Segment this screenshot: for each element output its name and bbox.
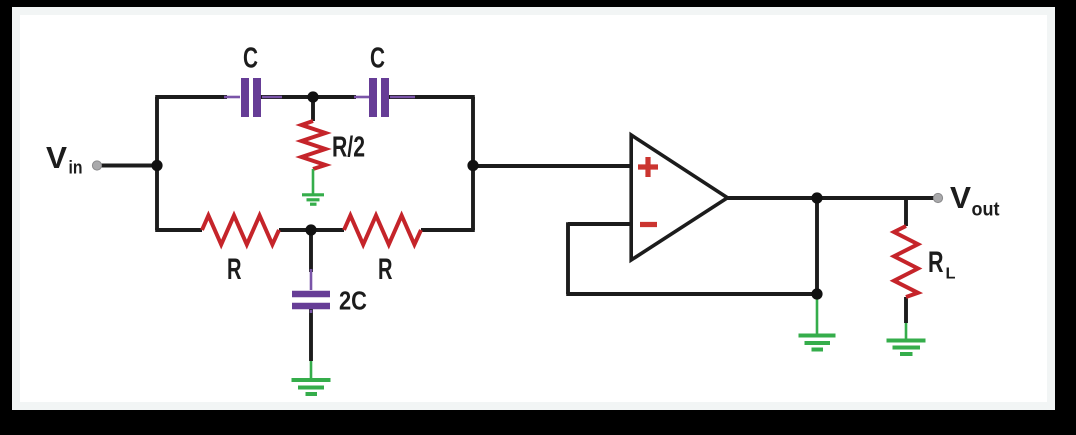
svg-text:C: C <box>243 43 258 75</box>
svg-text:out: out <box>972 200 1001 221</box>
svg-text:L: L <box>946 266 956 283</box>
svg-text:R/2: R/2 <box>332 132 365 164</box>
svg-text:2C: 2C <box>339 286 367 316</box>
svg-text:C: C <box>370 43 385 75</box>
svg-text:in: in <box>69 158 83 178</box>
svg-text:R: R <box>227 253 242 286</box>
svg-text:V: V <box>950 180 971 215</box>
svg-text:V: V <box>46 140 67 175</box>
svg-text:R: R <box>378 253 393 286</box>
svg-text:R: R <box>928 246 944 279</box>
